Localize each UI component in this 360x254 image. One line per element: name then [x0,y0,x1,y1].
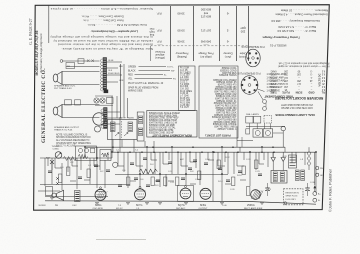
svg-text:6Q7G: 6Q7G [178,204,185,207]
svg-text:GRN: GRN [119,80,124,82]
svg-text:GREEN: GREEN [128,67,137,69]
svg-text:DIAL LAMPS: DIAL LAMPS [246,113,259,116]
dial lamp heading bar (upside-down bold) [275,113,314,117]
rectifier diodes (downward) [271,158,275,162]
svg-text:YEL: YEL [128,79,133,81]
resistor zigzag mid [139,169,157,174]
tube V2 6K7G [135,189,146,200]
svg-text:REPLACEMENT PARTS LIST: REPLACEMENT PARTS LIST [152,133,192,137]
svg-text:AC line — volume control at ma: AC line — volume control at maximum, no … [278,65,330,68]
svg-text:Band “C” . . . . . . 5.7-18.: Band “C” . . . . . . 5.7-18.0 MC [278,25,316,29]
svg-text:(Setting): (Setting) [177,55,187,59]
svg-text:PUT TRANS F-63: PUT TRANS F-63 [54,87,72,90]
voltage note lines [281,103,314,106]
svg-text:NOTE: VOLUME CONTROL IS: NOTE: VOLUME CONTROL IS [56,134,88,136]
trimmer dots along buses [117,151,119,153]
svg-text:PARTS LIST (CONT.): PARTS LIST (CONT.) [205,134,230,138]
right feed wire [314,152,316,185]
svg-text:Loud-speaker—Electrodynamic:: Loud-speaker—Electrodynamic: [91,29,138,33]
svg-text:TO P.L.: TO P.L. [167,67,174,69]
volume control circle [93,113,105,125]
antenna series resistor zigzag [63,157,76,161]
voltage table header row (upside-down) [270,91,277,94]
svg-text:30-06: 30-06 [177,40,185,44]
svg-text:50-50: 50-50 [177,29,185,33]
candohm resistor ladder [289,155,297,168]
svg-text:SPEAKER AND OUT-: SPEAKER AND OUT- [54,85,76,88]
svg-text:SW: SW [171,71,174,73]
svg-text:250: 250 [240,30,245,34]
alignment table contents (upside-down) [155,50,165,54]
svg-text:Note: Readings at “B” may be u: Note: Readings at “B” may be used on set… [61,47,153,51]
dial lamp dashed box (F-64/F-66 extra) [264,116,272,124]
svg-text:——: —— [157,42,163,45]
company name "GENERAL ELECTRIC CO." [41,68,47,143]
svg-text:SPKR PLUG VIEWED FROM: SPKR PLUG VIEWED FROM [128,87,158,89]
svg-text:25Z6G: 25Z6G [247,204,255,207]
svg-text:R.F.: R.F. [156,29,161,33]
pilot lamp symbols [94,98,99,103]
tube V5 25Z6G [251,190,261,200]
component boxes control unit 2 [65,100,72,105]
svg-text:B-: B- [318,200,320,202]
svg-text:P-53 SPEAKER PLUG: P-53 SPEAKER PLUG [237,71,260,74]
power transformer T5 [271,171,287,184]
field coil leads T1 [107,61,122,63]
svg-text:BLACK: BLACK [128,70,136,73]
junction circles left of voltage block [263,100,267,104]
svg-text:RECEIVER SOCKET VOLTAGES: RECEIVER SOCKET VOLTAGES [275,96,323,100]
svg-text:RESISTOR IN: RESISTOR IN [286,192,300,194]
svg-text:3Ω: 3Ω [67,66,70,68]
rf choke diamonds [307,151,311,155]
svg-text:RECT. AMPLIFIER: RECT. AMPLIFIER [244,207,263,210]
page border frame [34,5,330,211]
svg-text:GENERAL ELECTRIC CO.: GENERAL ELECTRIC CO. [41,68,47,143]
svg-text:6K7G: 6K7G [136,204,142,207]
svg-text:550Ω FIELD: 550Ω FIELD [108,73,120,75]
replacement parts list box 2 [199,66,238,138]
svg-text:30-80: 30-80 [177,12,185,16]
svg-text:1000 OHM PER VOLT METER: 1000 OHM PER VOLT METER [281,106,313,108]
svg-text:RED: RED [119,66,124,68]
svg-text:TUBE: TUBE [270,91,277,94]
svg-text:I.F.: I.F. [137,208,140,210]
svg-text:RED: RED [128,75,133,77]
svg-text:PH: PH [320,168,323,170]
antenna marks [50,160,54,170]
svg-text:167-171: 167-171 [200,29,211,33]
parts box 3 heading (upside-down bold) [152,133,192,137]
svg-text:©John F. Rider, Publisher: ©John F. Rider, Publisher [328,168,332,212]
svg-text:OUTPUT: OUTPUT [199,208,209,210]
svg-text:MODEL F-51: MODEL F-51 [270,43,287,47]
svg-text:6A8G: 6A8G [95,204,101,207]
phono gnd terminals [316,166,319,169]
svg-text:cathode of the 25Z6G rectifier: cathode of the 25Z6G rectifier tube will… [53,39,153,43]
svg-text:OSC-MOD: OSC-MOD [93,208,104,210]
wires from IF transformers [112,140,114,153]
svg-text:--: -- [311,88,313,90]
on-off switch circle [281,126,285,130]
model list "MODELS F-63,F-65,F-74,F-66" [35,30,39,75]
coil winding bottom left [75,191,81,202]
rf coil box [100,150,111,161]
svg-text:R.F.: R.F. [156,12,161,16]
stray scan mark bottom margin [96,239,146,241]
tube complement heading (upside-down bold) [264,95,293,99]
svg-text:-6: -6 [226,12,229,16]
svg-text:P-52 SPEAKER PLUG: P-52 SPEAKER PLUG [241,45,264,48]
svg-text:SPEAKER AND OUTPUT: SPEAKER AND OUTPUT [54,126,80,129]
svg-text:Undistorted Power Output . .: Undistorted Power Output . . . . 4.5 Wat… [275,12,328,16]
volts sidebar [317,73,321,86]
svg-text:TRANS F-74, F-66: TRANS F-74, F-66 [54,128,73,131]
top band separator rule [48,5,50,43]
svg-text:(Ant.): (Ant.) [225,55,232,59]
svg-text:in this chassis and the voltag: in this chassis and the voltage readings… [50,35,153,39]
electrolytic caps [265,187,269,189]
svg-text:Speaker Impedance—6-8 ohms .: Speaker Impedance—6-8 ohms . . . . . . .… [50,7,153,11]
svg-text:-6: -6 [226,40,229,44]
svg-text:(Where): (Where) [155,56,165,60]
svg-text:-2: -2 [226,29,229,33]
vertical wires [84,147,86,158]
svg-text:600-250: 600-250 [200,8,211,12]
output transformer T1 (laminated core) [103,58,107,91]
svg-text:DET-AVC: DET-AVC [176,207,186,210]
tube V1 6A8G [95,189,106,200]
wires control unit 1 [62,71,100,73]
svg-text:6A8G: 6A8G [270,70,276,73]
wide parts box 3 [147,111,197,138]
svg-text:--: -- [311,85,313,87]
switch marks [60,60,63,63]
svg-text:——: —— [203,42,209,45]
svg-text:QRT: QRT [240,26,246,30]
output transformer T2 (laminated core) [104,108,108,129]
svg-text:Band “A” . . . . . . 540-172: Band “A” . . . . . . 540-1720 KC [277,29,316,33]
svg-text:6K7G: 6K7G [270,73,276,75]
publisher credit [328,168,332,212]
dial lamp wiring [246,125,285,127]
svg-text:T-4 OUT: T-4 OUT [180,107,189,109]
svg-text:CHASSIS WITH SET OPERATING: CHASSIS WITH SET OPERATING [56,142,91,145]
tube socket view A (speaker plug P-52) [246,49,260,67]
dotted resistor box [284,189,304,205]
svg-text:6F6G: 6F6G [270,79,276,81]
svg-text:G. E. PAGE 9-27: G. E. PAGE 9-27 [29,18,33,44]
wave trap box [76,146,97,161]
filter winding bars [296,170,300,181]
svg-text:6F6G: 6F6G [200,204,206,207]
IF transformer IFT2 slim stack [137,112,144,141]
main bus wires [85,146,285,148]
svg-text:freq: freq [149,33,154,37]
wires control unit 2 [62,104,100,106]
tube grid caps [139,186,141,188]
svg-text:--: -- [298,88,300,90]
svg-text:465 KC: 465 KC [116,208,123,210]
tube socket view B (speaker plug P-53) [241,76,258,95]
svg-text:PILOT LIGHT G.E. MAZDA No. 40: PILOT LIGHT G.E. MAZDA No. 40 [128,82,164,85]
chassis ground symbols [95,202,99,204]
svg-text:Schematic,Voltage,Alignment: Schematic,Voltage,Alignment [39,33,43,72]
resistor boxes vertical [127,177,130,186]
svg-text:WIRING SIDE: WIRING SIDE [128,90,143,92]
svg-text:GD: GD [320,175,324,177]
speaker spec text block (upside-down) [50,7,153,11]
svg-text:8355177 COND .1: 8355177 COND .1 [218,129,238,131]
jack symbol bottom left [57,190,64,200]
T2 leads [107,111,120,113]
svg-text:ANT: ANT [46,157,51,160]
lamp socket boxes with bulbs [253,129,263,137]
svg-text:AVC: AVC [180,158,185,161]
left margin page number "G. E. PAGE 9-27" [29,18,33,44]
svg-text:Cone: Model F-51 P-52 . . . .: Cone: Model F-51 P-52 . . . . . . . . . … [87,23,147,27]
svg-text:Voice Coil Diam. . . . . . .: Voice Coil Diam. . . . . . . . . ⅞ in. [83,18,124,22]
svg-text:Intermediate Frequency . . .: Intermediate Frequency . . . . . 465 KC [271,19,320,23]
svg-text:FIL: FIL [321,91,325,94]
svg-text:25Z6: 25Z6 [270,82,276,84]
misc dots [96,157,98,159]
svg-text:Tuning Frequency Range:: Tuning Frequency Range: [262,36,300,40]
svg-text:SCRN: SCRN [295,91,302,94]
svg-text:6Q7G: 6Q7G [270,76,276,78]
svg-text:SHOWN IN MAXIMUM POSITION: SHOWN IN MAXIMUM POSITION [56,136,91,139]
speaker SP2 (control unit F-74) [53,107,58,115]
svg-text:6U5G: 6U5G [270,85,276,87]
svg-text:Maximum . . . . . . . . . . .: Maximum . . . . . . . . . . . . . . 10 W… [280,8,328,12]
svg-text:GRID: GRID [308,91,314,94]
svg-text:SPKR PLUG: SPKR PLUG [286,196,298,198]
speaker SP1 (control unit F-63) [53,74,58,82]
voltage readings table (upside-down) [278,61,329,64]
tube V4 6F6G [200,188,211,199]
short jumpers [118,165,124,167]
svg-text:Outside Cone Diam. . . . . .: Outside Cone Diam. . . . . . 4¼ in. [81,14,124,18]
pointer line from socket B [258,89,265,92]
voltage table heading bar (upside-down bold) [275,96,323,100]
tuning frequency range specs (upside-down) [280,8,328,12]
svg-text:OSC: OSC [72,205,77,207]
svg-text:Readings taken with set in ope: Readings taken with set in operation on … [278,61,329,64]
svg-text:--: -- [298,85,300,87]
voice coil box [66,63,75,69]
svg-text:8352208 TRANS: 8352208 TRANS [219,74,237,77]
svg-text:COND.: COND. [53,149,60,151]
svg-text:PLATE: PLATE [282,91,290,94]
svg-text:VOLTS DC: VOLTS DC [317,73,321,86]
svg-text:DIAL LAMP CONNECTIONS: DIAL LAMP CONNECTIONS [275,113,314,117]
capacitor symbols scattered [118,184,122,186]
svg-text:600-172: 600-172 [200,15,211,19]
svg-text:BLUE: BLUE [109,60,115,62]
svg-text:--: -- [311,82,313,84]
svg-text:dotted lines and the voltage d: dotted lines and the voltage drop in the… [58,43,153,47]
battery terminals [313,192,317,196]
parts list heading (upside-down bold) [205,134,230,138]
svg-text:(Align kc): (Align kc) [200,55,211,59]
alignment table grid [170,6,172,61]
connector stub wires [116,96,118,118]
tube V3 6Q7G in shield box [178,186,194,202]
svg-text:--: -- [298,76,300,78]
replacement parts list box 1 [179,66,196,111]
svg-text:VOLTAGES MEASURED WITH: VOLTAGES MEASURED WITH [281,103,314,106]
svg-text:ALL VOLTAGES MEASURED TO: ALL VOLTAGES MEASURED TO [56,139,90,142]
svg-text:6X5G: 6X5G [270,88,276,90]
svg-text:1ST I.F. TRANS: 1ST I.F. TRANS [119,117,134,120]
trimmer circle [113,162,118,167]
switch box bottom far-left [46,187,53,196]
svg-text:F-63 ONLY: F-63 ONLY [286,199,297,201]
